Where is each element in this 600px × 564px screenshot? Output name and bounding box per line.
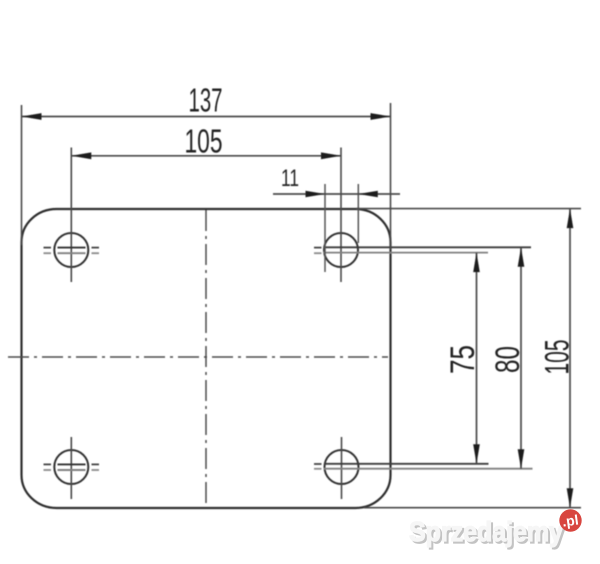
horizontal centerline	[8, 356, 388, 358]
dim 80 line	[520, 247, 522, 468]
dim 80 arrow up	[518, 247, 525, 266]
dim 11 extension line left	[324, 184, 326, 272]
dim 11 arrow left	[306, 191, 326, 198]
dim 137 extension line left	[21, 105, 23, 245]
hole bottom-left	[44, 437, 100, 499]
dim 137 arrow right	[371, 113, 391, 120]
plate outline	[22, 209, 391, 508]
svg-text:105: 105	[539, 340, 577, 375]
dim 75 arrow up	[473, 253, 480, 273]
top reference line for dim 105 vertical	[356, 208, 581, 210]
hole top-left	[44, 148, 100, 283]
dim 75 arrow down	[473, 444, 480, 464]
hole bottom-right	[314, 437, 533, 499]
dim 105 line	[71, 155, 341, 157]
bottom reference line for dim 105 vertical	[364, 507, 581, 509]
svg-text:137: 137	[189, 82, 223, 119]
dim 137 extension line right	[390, 103, 392, 250]
svg-text:75: 75	[444, 345, 482, 374]
dim 75 line	[476, 253, 478, 464]
dim 11 extension line right	[357, 184, 359, 243]
dim 105 vertical arrow down	[567, 488, 574, 508]
hole top-right	[314, 148, 531, 283]
dim 137 arrow left	[22, 113, 42, 120]
svg-text:11: 11	[281, 165, 299, 192]
vertical centerline	[205, 210, 207, 507]
dim 137 line	[22, 116, 391, 118]
dim 105 vertical arrow up	[567, 209, 574, 229]
dim 105 vertical line	[569, 209, 571, 508]
dim 11 line	[273, 193, 400, 195]
dim 11 arrow right	[358, 191, 378, 198]
svg-text:80: 80	[489, 346, 527, 373]
dim 105 arrow right	[321, 152, 341, 159]
dim 80 arrow down	[518, 449, 525, 469]
svg-text:Sprzedajemy: Sprzedajemy	[409, 516, 563, 547]
dim 105 arrow left	[71, 152, 91, 159]
svg-text:105: 105	[185, 123, 223, 160]
svg-text:.pl: .pl	[561, 511, 579, 529]
watermark .pl red circle	[559, 509, 581, 531]
